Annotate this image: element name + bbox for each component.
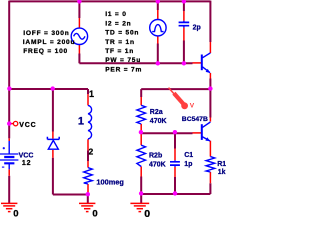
wire base rail [79,62,192,64]
battery V1 plus sign [3,147,5,149]
wire diode column upper [52,89,54,132]
transistor Q2 emitter arm [202,137,210,141]
transistor Q1 emitter arrow [206,69,211,73]
pin VCC flag stub [10,123,14,125]
junction top rail at AC source [77,0,81,4]
wire middle ground stem [87,194,89,203]
ground 0 middle bars [79,202,95,204]
junction left rail VCC branch [7,86,11,90]
svg-text:12: 12 [22,160,31,167]
junction base rail at 2p cap [182,61,186,65]
pin battery bottom [8,169,10,176]
svg-text:IAMPL = 200u: IAMPL = 200u [23,39,76,46]
svg-text:100meg: 100meg [96,177,124,186]
pin Q2 collector [209,118,211,122]
svg-text:2p: 2p [193,24,201,31]
resistor R2a zigzag [137,105,146,124]
wire pulse source column [157,1,159,63]
junction top rail at 2p cap [182,0,186,4]
junction base rail at pulse source [156,61,160,65]
diode D1 triangle [48,140,58,149]
junction middle ground [86,192,90,196]
svg-text:TF = 1n: TF = 1n [105,48,134,55]
wire 2p capacitor column [183,1,185,63]
battery V1 bottom stem [8,163,10,169]
svg-text:470K: 470K [150,118,167,125]
pin pulse source top [157,10,159,19]
wire Q2 base rail [141,132,192,134]
wire right ground stem [140,194,142,203]
svg-text:TR = 1n: TR = 1n [105,39,135,46]
pin inductor top [87,94,89,105]
junction C1 top [173,130,177,134]
wire diode column lower to middle ground [53,158,88,195]
transistor Q2 collector arm [202,122,210,127]
transistor Q2 base bar [201,124,203,140]
inductor L1 coil [88,105,92,139]
pulse current source waveform [152,25,163,32]
pin C1 top [174,149,176,161]
AC current source I1 circle [71,28,87,44]
transistor Q2 emitter arrow [205,137,210,141]
junction diode top [51,86,55,90]
svg-text:2: 2 [89,147,95,157]
pin 100meg top [87,161,89,168]
junction left rail VCC flag [7,121,11,125]
voltage probe marker V [169,88,188,109]
svg-text:V: V [190,102,195,109]
wire node A down to Q2 collector [209,79,211,118]
wire left VCC rail [8,1,10,139]
svg-text:1k: 1k [218,169,226,176]
svg-text:R2b: R2b [149,153,162,160]
pulse current source I2 circle [150,20,166,36]
pin R2a top [140,97,142,105]
wire R2a top [140,89,142,97]
svg-text:BC547B: BC547B [182,116,208,123]
junction node A [208,86,212,90]
pin 2p cap top [183,11,185,21]
svg-text:1p: 1p [184,161,192,168]
pin diode top [52,132,54,139]
pin Q2 base [193,132,202,134]
pin Q1 collector [209,42,211,53]
pin R2b top [140,134,142,146]
pin R2a bottom [140,124,142,131]
pin Q2 emitter / R1 top [209,141,211,157]
transistor Q1 collector arm [202,53,210,58]
pin pulse source bottom [157,36,159,43]
battery V1 minus sign [2,166,4,168]
capacitor C1 plates [170,162,180,165]
transistor Q1 emitter arm [202,67,210,73]
wire AC source bottom to base rail [78,54,80,64]
wire node A horizontal [141,88,210,90]
junction R2a R2b base of Q2 [139,130,143,134]
wire AC source top pin stub [78,1,80,18]
svg-text:1: 1 [78,115,84,127]
wire R2b bottom [140,177,142,195]
pin AC source bottom [78,45,80,54]
diode D1 cathode bar with end ticks [47,137,59,140]
svg-text:R2a: R2a [150,109,163,116]
resistor R3 100meg zigzag [84,168,93,184]
transistor Q1 base bar [201,55,203,71]
svg-text:I2 = 2n: I2 = 2n [105,20,131,27]
svg-text:R1: R1 [217,161,226,168]
svg-text:VCC: VCC [19,122,36,129]
resistor R2b zigzag [137,145,146,166]
pin Q1 base [193,62,202,64]
capacitor C2 2p stubs [183,21,185,28]
pin Q1 emitter [209,73,211,79]
wire right column to Q1 collector [209,1,211,42]
svg-text:0: 0 [144,208,151,217]
svg-text:IOFF = 300n: IOFF = 300n [23,30,69,37]
pin diode bottom [52,150,54,158]
junction bottom rail ground [139,191,143,195]
svg-text:PER = 7m: PER = 7m [105,66,142,73]
wire inductor to 100meg [87,150,89,161]
svg-text:1: 1 [89,89,95,99]
ground 0 right bars [130,202,149,204]
capacitor C2 2p plates [179,22,190,25]
battery V1 plates [0,154,18,160]
pin inductor bottom [87,139,89,150]
pin battery top [8,138,10,141]
capacitor C1 stubs [174,160,176,167]
wire C1 column [174,133,176,194]
pin AC source top [78,18,80,28]
svg-text:FREQ = 100: FREQ = 100 [23,48,68,55]
svg-text:0: 0 [13,208,19,217]
pin R2b bottom [140,167,142,177]
wire battery to ground [8,176,10,203]
pin 100meg bottom [87,184,89,193]
wire bottom right rail [141,183,210,194]
svg-text:TD = 50n: TD = 50n [105,30,139,37]
resistor R1 zigzag [206,157,215,172]
wire top VCC rail [9,0,210,2]
pin 2p cap bottom [183,28,185,41]
pin R1 bottom [209,172,211,183]
wire VCC branch to diode and inductor [9,89,88,94]
VCC power flag circle [13,121,17,125]
AC current source sine wave [74,33,85,39]
svg-text:PW = 75u: PW = 75u [105,57,141,64]
svg-text:C1: C1 [184,152,193,159]
svg-text:0: 0 [92,208,98,217]
junction top rail at pulse source [156,0,160,4]
junction bottom rail C1 [173,191,177,195]
svg-text:VCC: VCC [19,153,34,160]
ground 0 left bars [1,202,17,204]
svg-text:470K: 470K [149,162,166,169]
pin C1 bottom [174,167,176,177]
battery V1 top stem [8,141,10,154]
svg-text:I1 = 0: I1 = 0 [105,11,126,18]
